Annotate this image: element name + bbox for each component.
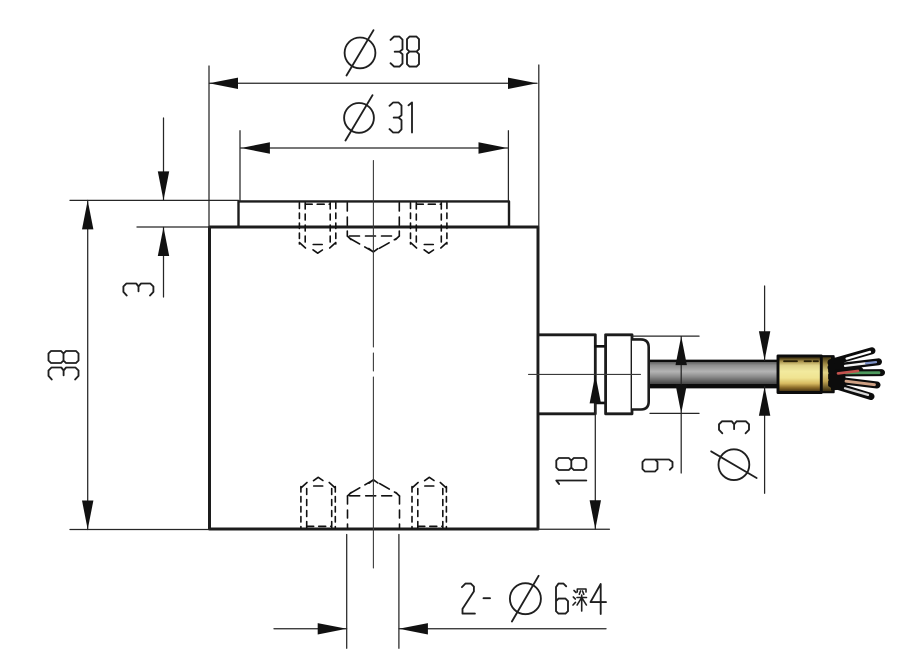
ext line body bottom right bbox=[538, 528, 609, 530]
main body outline bbox=[210, 227, 539, 529]
vertical center line of part bbox=[372, 161, 374, 569]
ext line flange left bbox=[239, 131, 241, 202]
top-center hole Ø6 (hidden lines) bbox=[347, 203, 399, 252]
dim line holes left segment bbox=[274, 628, 347, 630]
arrow Ø31 left bbox=[241, 142, 270, 153]
cable jacket bbox=[648, 360, 778, 387]
arrow 18 bottom (points down) bbox=[590, 500, 601, 529]
bottom-left threaded hole (hidden lines) bbox=[301, 477, 335, 528]
label Ø3 (rotated) bbox=[719, 449, 750, 480]
arrow Ø3 lower (points up) bbox=[759, 387, 770, 416]
arrow holes left (points right) bbox=[318, 623, 347, 634]
arrow 18 top (points up) bbox=[590, 374, 601, 403]
label Ø31 bbox=[344, 103, 374, 133]
dim line 38 (vertical left) bbox=[87, 200, 89, 529]
ext line hole left bbox=[346, 535, 348, 649]
arrow Ø3 upper (points down) bbox=[759, 331, 770, 360]
dim line Ø3 lower bbox=[764, 387, 766, 494]
gland nut bbox=[606, 335, 632, 414]
arrow 38 bottom bbox=[82, 501, 93, 530]
wire 4 red core bbox=[838, 371, 858, 374]
bottom-center hole Ø6 (hidden lines) bbox=[348, 480, 400, 528]
top-right threaded hole (hidden lines) bbox=[411, 203, 447, 253]
gland sleeve (rounded) bbox=[632, 339, 649, 409]
flange (top boss) outline bbox=[239, 201, 510, 227]
dim line holes right segment bbox=[399, 628, 606, 630]
label 9 (rotated) bbox=[643, 460, 673, 472]
dim line 9 bbox=[680, 336, 682, 473]
arrow 9 bottom (points down) bbox=[676, 384, 687, 413]
gland hex body bbox=[538, 335, 595, 414]
dim line 18 bbox=[594, 374, 596, 529]
ext line gland nut top bbox=[632, 335, 699, 337]
dim line Ø31 bbox=[241, 147, 508, 149]
bottom-right threaded hole (hidden lines) bbox=[412, 477, 446, 528]
cable bottom edge bbox=[648, 384, 778, 388]
ext line body bottom left bbox=[70, 529, 210, 531]
crimp band black ticks bbox=[828, 361, 831, 385]
label 38 (left, rotated) bbox=[49, 368, 79, 380]
top-left threaded hole (hidden lines) bbox=[299, 203, 335, 253]
label 3 (left, rotated) bbox=[123, 284, 153, 296]
arrow 38 top bbox=[82, 200, 93, 229]
label Ø38 top bbox=[345, 38, 376, 69]
gland threaded neck bbox=[595, 346, 605, 403]
horizontal cable axis center line bbox=[529, 373, 641, 375]
label 18 (rotated) bbox=[556, 481, 586, 485]
wire 3 green core bbox=[846, 371, 879, 374]
arrow Ø38 left bbox=[209, 78, 238, 89]
wire 6 silver core bbox=[845, 388, 868, 395]
ferrule top inner marks bbox=[784, 360, 818, 362]
wire bundle black outlines bbox=[831, 351, 882, 397]
ext line body top (for dim 3) bbox=[137, 226, 210, 228]
dim line Ø38 bbox=[209, 82, 537, 84]
wire 1 white core bbox=[847, 352, 870, 359]
cable top edge bbox=[648, 360, 778, 362]
ext line gland nut bottom bbox=[650, 412, 699, 414]
arrow Ø38 right bbox=[508, 78, 537, 89]
wire 2 white/blue core bbox=[845, 363, 866, 366]
dim line 3 upper segment bbox=[163, 118, 165, 200]
dim line Ø3 upper bbox=[764, 286, 766, 360]
arrow holes right (points left) bbox=[399, 623, 428, 634]
brass ferrule body bbox=[778, 356, 821, 393]
wire bundle base (black merge) bbox=[831, 357, 847, 391]
arrow 3 lower (points up) bbox=[158, 227, 169, 256]
dim line 3 lower segment bbox=[163, 227, 165, 297]
arrow Ø31 right bbox=[479, 142, 508, 153]
wire 5 tan braid core bbox=[846, 381, 875, 385]
ext line flange top (left side) bbox=[70, 199, 239, 201]
arrow 3 upper (points down) bbox=[158, 171, 169, 200]
ext line body left top bbox=[208, 66, 210, 227]
ext line hole right bbox=[398, 535, 400, 649]
crimp band (brass, right) bbox=[821, 356, 833, 392]
ext line body right top bbox=[538, 65, 540, 227]
arrow 9 top (points up) bbox=[676, 336, 687, 365]
ext line flange right bbox=[507, 131, 509, 202]
label 2- Ø6深4 (bottom) bbox=[462, 584, 475, 614]
